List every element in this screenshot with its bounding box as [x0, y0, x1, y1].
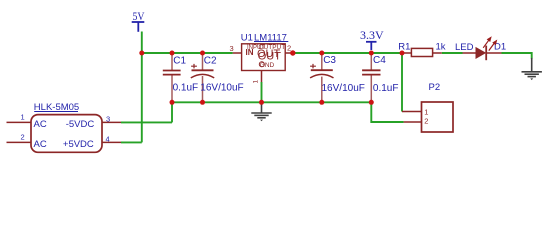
module HLK-5M05 — [7, 102, 122, 152]
svg-text:R1: R1 — [398, 41, 410, 52]
svg-text:C3: C3 — [323, 55, 336, 66]
wire riser pin3 to ground rail — [171, 102, 173, 122]
svg-text:-5VDC: -5VDC — [66, 119, 95, 130]
wire 5V feed down to pin4 row — [141, 53, 143, 142]
svg-text:+5VDC: +5VDC — [63, 139, 94, 150]
capacitor C4 — [362, 53, 398, 102]
junction dots — [139, 50, 404, 105]
power flag 3.3V — [360, 28, 384, 50]
junction C1 bottom — [170, 100, 175, 105]
ground right — [522, 58, 542, 80]
svg-text:2: 2 — [424, 117, 428, 126]
svg-text:2: 2 — [287, 43, 291, 52]
pin stub GND — [261, 71, 263, 83]
capacitor C3 (polarized) — [310, 53, 365, 102]
pin stub IN — [233, 52, 242, 54]
capacitor C2 (polarized) — [191, 53, 244, 102]
svg-text:OUT: OUT — [258, 50, 282, 62]
junction C3 top — [319, 51, 324, 56]
pin stub OUT — [285, 52, 293, 54]
pin stub 3 — [102, 121, 121, 123]
svg-text:16V/10uF: 16V/10uF — [322, 83, 365, 94]
junction C2 top — [200, 51, 205, 56]
junction 5V corner — [139, 51, 144, 56]
svg-text:3: 3 — [230, 44, 234, 53]
wire ground detour to P2 pin2 — [371, 102, 403, 122]
wire top rail 5V to U1 IN — [142, 52, 233, 54]
junction R1 / P2 feed — [400, 51, 405, 56]
pin stub 4 — [102, 141, 121, 143]
ground under U1 — [251, 103, 271, 121]
LED arrows — [483, 40, 489, 48]
svg-text:16V/10uF: 16V/10uF — [200, 82, 243, 93]
LED D1 — [455, 36, 506, 60]
wire output rail U1 OUT to R1 — [293, 52, 402, 54]
svg-text:C1: C1 — [173, 56, 186, 67]
svg-text:0.1uF: 0.1uF — [173, 82, 199, 93]
wire ground rail — [172, 101, 371, 103]
pin stub 1 — [7, 121, 32, 123]
power flag 5V — [132, 9, 145, 32]
svg-text:C4: C4 — [373, 55, 386, 66]
wire 3.3V down to P2 pin1 — [401, 53, 403, 112]
svg-text:1k: 1k — [436, 41, 446, 52]
pin stub 2 — [7, 141, 32, 143]
svg-text:1: 1 — [253, 80, 260, 84]
junction C2 bottom — [200, 100, 205, 105]
junction U1 OUT — [290, 50, 295, 55]
wire R1 to LED anode — [442, 52, 463, 54]
junction C1 top — [170, 51, 175, 56]
regulator U1 LM1117 — [230, 32, 293, 102]
svg-text:1: 1 — [424, 108, 428, 117]
svg-text:AC: AC — [34, 119, 47, 130]
junction U1 GND — [259, 100, 264, 105]
wire pin4 to corner — [121, 141, 142, 143]
junction C3 bottom — [319, 100, 324, 105]
pin stub P2.1 — [402, 111, 422, 113]
junction C4 bottom / detour — [369, 100, 374, 105]
junction 3.3V / C4 — [369, 51, 374, 56]
wire LED cathode to ground corner — [502, 53, 532, 59]
svg-text:AC: AC — [34, 139, 47, 150]
svg-text:LED: LED — [455, 42, 474, 53]
svg-text:U1: U1 — [241, 32, 253, 43]
connector P2 — [402, 82, 453, 132]
resistor R1 — [398, 41, 445, 56]
wire pin3 to riser — [121, 121, 172, 123]
pin stub P2.2 — [404, 121, 422, 123]
wire 5V stub down — [141, 32, 143, 54]
svg-text:P2: P2 — [429, 82, 441, 93]
svg-text:1: 1 — [21, 113, 25, 122]
svg-text:C2: C2 — [204, 55, 217, 66]
svg-text:3.3V: 3.3V — [360, 28, 384, 42]
svg-text:GND: GND — [260, 62, 275, 69]
capacitor C1 — [163, 53, 198, 102]
svg-text:2: 2 — [21, 133, 25, 142]
svg-text:0.1uF: 0.1uF — [373, 83, 399, 94]
